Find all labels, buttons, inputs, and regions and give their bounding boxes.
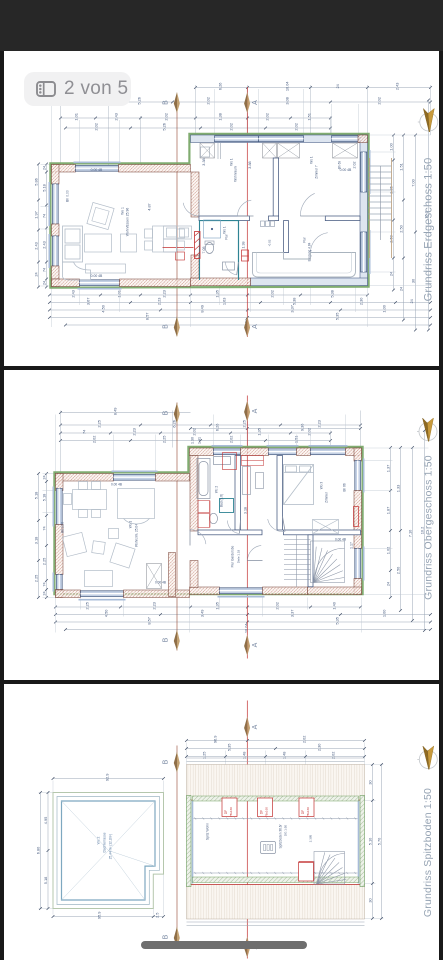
kitchen counter [163, 226, 191, 252]
dim chain EG right 2 [398, 134, 405, 322]
svg-text:96.9: 96.9 [212, 735, 217, 743]
wall OG left-block top a [55, 473, 113, 480]
svg-text:0.00 4B: 0.00 4B [339, 168, 351, 172]
dim chain OG bottom 2 [54, 609, 432, 617]
svg-text:2.02: 2.02 [228, 123, 233, 131]
svg-text:Wc 2: Wc 2 [96, 836, 100, 844]
wall hall-entrance divider [283, 221, 288, 253]
sofa L-shape [62, 226, 90, 280]
svg-text:6.80: 6.80 [35, 846, 40, 854]
svg-text:2.43: 2.43 [33, 242, 38, 250]
svg-text:1.51: 1.51 [293, 435, 298, 443]
svg-text:2.43: 2.43 [394, 83, 399, 91]
door bedroom right [300, 193, 325, 216]
dim chain SP roof bottom [51, 911, 164, 919]
svg-text:1.37: 1.37 [385, 464, 390, 472]
svg-text:1.63: 1.63 [221, 298, 226, 306]
OG shower teal [219, 498, 233, 512]
svg-text:5.26: 5.26 [161, 123, 166, 131]
svg-text:A: A [251, 724, 258, 729]
OG washbasin [213, 456, 230, 464]
roof window DF 4 [298, 861, 313, 880]
wall left-block bottom segment b [119, 279, 190, 286]
OG winder stair [283, 534, 343, 585]
svg-text:4.95: 4.95 [42, 816, 47, 824]
svg-text:DG 1:50: DG 1:50 [283, 824, 287, 835]
svg-text:Zimmer: Zimmer [324, 491, 328, 503]
wall left-block left lower segment [51, 266, 58, 279]
OG door hall [247, 545, 262, 560]
svg-text:Grundriss Erdgeschoss 1:50: Grundriss Erdgeschoss 1:50 [422, 158, 434, 302]
dim chain SP right 1 [367, 763, 374, 920]
svg-text:2.02: 2.02 [163, 113, 168, 121]
wall OG stair enclosure [307, 534, 312, 586]
svg-text:2.02: 2.02 [352, 162, 356, 169]
svg-text:7.08: 7.08 [201, 247, 205, 254]
terrace inner line [256, 252, 351, 272]
window OG right 2 [354, 546, 363, 580]
svg-text:1.01: 1.01 [73, 113, 78, 121]
svg-text:10.04: 10.04 [284, 81, 289, 92]
dim chain OG left outer [33, 472, 40, 599]
svg-text:B: B [162, 759, 169, 764]
roof window DF 1 [221, 798, 236, 817]
svg-text:B: B [162, 324, 169, 329]
dim chain SP roof top [51, 773, 164, 781]
dim connector lines top [60, 85, 430, 165]
exterior stair rails [369, 158, 391, 258]
svg-text:1.33: 1.33 [395, 484, 400, 492]
wall OG left-block bottom b [123, 589, 189, 597]
attic knee wall bottom green strip [192, 876, 358, 881]
north arrow SP [417, 746, 437, 769]
svg-text:Diele 1.18: Diele 1.18 [236, 549, 240, 563]
svg-text:8.57: 8.57 [144, 313, 149, 321]
svg-text:0.00 4B: 0.00 4B [154, 580, 165, 584]
svg-text:8.57: 8.57 [146, 617, 151, 625]
svg-text:2.395: 2.395 [308, 834, 312, 842]
OG dining table set [63, 481, 106, 517]
dim chain EG left inner [41, 163, 48, 289]
wall OG right-block top a [189, 448, 213, 455]
svg-text:2.50: 2.50 [398, 225, 403, 233]
wall right-block bottom ring [250, 278, 367, 285]
dim chain SP roof left 2 [42, 791, 49, 910]
roof ridge diagonals [61, 801, 154, 900]
wall OG interior vertical main [189, 455, 197, 530]
OG kitchen red boxes [197, 455, 262, 527]
svg-text:8.49: 8.49 [199, 305, 204, 313]
dim chain EG right 3 [410, 134, 417, 332]
wall OG right upper [353, 448, 360, 461]
svg-text:Wo 1: Wo 1 [128, 520, 132, 528]
svg-text:1.02: 1.02 [385, 546, 390, 554]
wall OG left-block top b [155, 473, 189, 480]
north arrow OG [416, 418, 436, 441]
OG door living [189, 529, 205, 545]
svg-text:1.38: 1.38 [241, 242, 245, 249]
svg-text:24: 24 [408, 298, 413, 303]
svg-text:2.02: 2.02 [293, 123, 298, 131]
OG armchair 2 [109, 542, 134, 567]
svg-text:3.37: 3.37 [289, 305, 294, 313]
svg-text:2.02: 2.02 [269, 290, 274, 298]
extension lines SP [38, 742, 383, 918]
svg-text:78x160: 78x160 [228, 806, 232, 816]
door bath [225, 262, 238, 275]
dim chain SP top 3 [185, 751, 366, 759]
wall OG right lower [353, 578, 360, 594]
svg-text:Wo 1: Wo 1 [229, 158, 233, 166]
svg-text:5.26: 5.26 [136, 97, 141, 105]
svg-text:1.00: 1.00 [381, 305, 386, 313]
svg-text:3.49: 3.49 [199, 609, 204, 617]
section marker B top OG [162, 402, 179, 423]
roof window DF 3 [298, 798, 313, 817]
svg-text:2.30: 2.30 [358, 298, 363, 306]
svg-text:30: 30 [367, 898, 372, 902]
svg-text:2.02: 2.02 [301, 735, 306, 743]
window right-block right 1 [360, 150, 369, 194]
attic gable wall left blue [191, 800, 193, 883]
svg-text:3.67: 3.67 [85, 298, 90, 306]
marker A bottom SP [244, 936, 259, 957]
window left-block left 1 [49, 182, 58, 226]
door entrance [310, 233, 330, 253]
svg-text:78x160: 78x160 [305, 806, 309, 816]
wall OG interior vertical main lower [189, 560, 197, 587]
svg-text:Wo 1: Wo 1 [222, 226, 226, 234]
svg-text:Grundriss Spitzboden 1:50: Grundriss Spitzboden 1:50 [422, 787, 433, 916]
svg-text:Wohnzim. 25.04: Wohnzim. 25.04 [134, 523, 138, 546]
attic stair red box [298, 862, 313, 880]
section line B vertical [175, 94, 177, 336]
svg-text:2.43: 2.43 [70, 290, 75, 298]
svg-text:2.50: 2.50 [395, 566, 400, 574]
svg-text:74: 74 [41, 267, 46, 272]
svg-text:2.02: 2.02 [228, 435, 233, 443]
svg-text:2.02: 2.02 [376, 97, 381, 105]
window left-block left 2 [49, 234, 58, 268]
dim chain OG top 1b [189, 423, 362, 431]
OG armchair 1 [62, 532, 86, 556]
wall interior horizontal hall b [268, 216, 278, 221]
wall left-block top-left segment [51, 165, 75, 172]
wall OG bottom right block a [189, 586, 219, 593]
svg-text:2.43: 2.43 [113, 113, 118, 121]
window right-block top 1 [214, 136, 258, 142]
svg-text:Grundriss Obergeschoss 1:50: Grundriss Obergeschoss 1:50 [423, 455, 434, 600]
svg-text:Wo 3: Wo 3 [319, 481, 323, 489]
svg-text:2.23: 2.23 [151, 602, 156, 610]
svg-text:4.50: 4.50 [103, 609, 108, 617]
svg-text:DF: DF [223, 809, 227, 813]
armchair rotated [86, 202, 113, 229]
kitchen red detail box [175, 252, 184, 260]
svg-text:0.00 4B: 0.00 4B [334, 537, 345, 541]
svg-text:5.70: 5.70 [376, 837, 381, 845]
svg-text:B6 0.00: B6 0.00 [60, 521, 64, 532]
wall interior horizontal hall a [198, 216, 248, 221]
attic roof lower edge lines [186, 921, 364, 925]
page indicator pill 2 von 5 [24, 72, 131, 106]
door hall to living [183, 200, 199, 216]
roof plan inner outline blue [61, 801, 154, 900]
section marker B bottom OG [162, 629, 179, 650]
dim connectors OG top [60, 410, 360, 475]
window OG bottom 1 [217, 587, 264, 596]
svg-text:2.02: 2.02 [205, 97, 210, 105]
toilet WC [204, 241, 213, 253]
side chair [120, 234, 136, 252]
svg-text:25.44 m² (12.2m²): 25.44 m² (12.2m²) [108, 833, 112, 859]
svg-text:2.23: 2.23 [316, 420, 321, 428]
svg-text:5.18: 5.18 [41, 493, 46, 501]
svg-text:5.38: 5.38 [291, 298, 296, 306]
svg-text:0.00 4B: 0.00 4B [90, 168, 102, 172]
svg-text:Flur Garderobe: Flur Garderobe [230, 545, 234, 567]
svg-text:74: 74 [41, 581, 46, 586]
svg-text:B: B [162, 934, 169, 939]
svg-text:Wo 1: Wo 1 [309, 156, 313, 164]
roof window DF 2 [257, 798, 272, 817]
svg-text:Bh 69: Bh 69 [337, 161, 341, 170]
dim chain EG bottom 2 [48, 298, 432, 306]
chimney box [260, 841, 275, 853]
OG small table 2 [108, 528, 118, 538]
section marker A top [244, 92, 259, 113]
OG door bedroom [267, 516, 284, 531]
svg-text:2.02: 2.02 [191, 428, 196, 436]
svg-text:3.18: 3.18 [243, 507, 247, 514]
svg-text:1.30: 1.30 [190, 437, 194, 444]
kitchen red detail line [162, 246, 193, 248]
window OG left-block bottom [78, 590, 125, 599]
dim chain OG bottom 1 [54, 602, 362, 610]
svg-text:2.25: 2.25 [41, 557, 46, 565]
dim chain OG right 1 [385, 446, 392, 599]
dim chain OG top 4 [59, 435, 332, 443]
section line A SP [246, 700, 248, 958]
svg-text:6.26: 6.26 [214, 423, 219, 431]
dim chain EG right 4 [423, 99, 430, 332]
video scrubber bar [141, 941, 307, 949]
svg-text:2.25: 2.25 [84, 602, 89, 610]
OG desk with arc [117, 488, 154, 523]
svg-text:2.02: 2.02 [93, 123, 98, 131]
svg-text:1.01: 1.01 [116, 290, 121, 298]
svg-text:92.9: 92.9 [104, 773, 109, 781]
wall OG left-block left upper [55, 473, 62, 490]
marker B bottom SP [162, 926, 179, 947]
attic rafter band top [186, 764, 364, 800]
pier right-block top-right X [332, 143, 357, 158]
window left-block bottom terrace door [77, 280, 121, 289]
wall OG left-block bottom a [55, 589, 80, 597]
dim chain EG bottom 5 [64, 318, 432, 329]
pier right-block top-mid X b [277, 143, 299, 158]
svg-text:74: 74 [41, 525, 46, 530]
svg-text:2.25: 2.25 [33, 574, 38, 582]
window OG right-block top 1 [211, 445, 242, 454]
section line B SP [175, 745, 177, 933]
window OG left-block left 2 [53, 572, 62, 591]
svg-text:2.50: 2.50 [388, 235, 393, 243]
window OG right 1 [354, 458, 363, 492]
dim chain EG bottom 1 [48, 290, 369, 298]
svg-text:DF: DF [300, 809, 304, 813]
attic knee wall top green strip [192, 796, 358, 801]
svg-text:30: 30 [410, 279, 415, 283]
svg-text:4.50: 4.50 [100, 305, 105, 313]
dim chain EG bottom 3 [48, 305, 432, 313]
dim chain EG top outer [194, 81, 432, 92]
wall left-block left upper segment [51, 165, 58, 184]
section line A vertical OG [246, 395, 248, 658]
wall OG interior horizontal [197, 530, 261, 535]
svg-text:A: A [251, 642, 258, 647]
OG bath counter [242, 466, 263, 494]
extension lines EG [40, 89, 430, 327]
wall OG bottom right block b [262, 586, 307, 593]
svg-text:2.02: 2.02 [264, 113, 269, 121]
dim chain SP top 1 [185, 735, 366, 743]
svg-text:1.41: 1.41 [197, 437, 201, 444]
svg-text:2.5: 2.5 [154, 912, 159, 917]
attic rafter band bottom red edge [186, 883, 364, 885]
dim chain OG bottom 4 [64, 622, 432, 633]
svg-text:2.25: 2.25 [241, 420, 246, 428]
bathroom inner wall teal [237, 221, 239, 280]
attic rafter band top red edge [186, 799, 364, 801]
status bar top black [0, 0, 443, 51]
wall interior vertical lower [190, 255, 198, 278]
svg-text:5.18: 5.18 [33, 491, 38, 499]
sideboard bottom [85, 264, 125, 273]
attic gable wall right blue [357, 800, 359, 883]
svg-text:Dachterrasse: Dachterrasse [102, 832, 106, 852]
window OG left-block top [111, 471, 157, 480]
svg-text:1.38: 1.38 [217, 113, 222, 121]
svg-text:0.00 4B: 0.00 4B [110, 482, 121, 486]
svg-text:2.30: 2.30 [316, 743, 321, 751]
svg-text:1.51: 1.51 [306, 113, 311, 121]
roof plan mid outline [56, 796, 158, 904]
svg-text:24: 24 [33, 272, 38, 277]
dim chain SP top 2 [185, 743, 366, 751]
svg-text:24: 24 [398, 286, 403, 291]
door top room 1 [237, 200, 253, 216]
window right-block top 3 [331, 136, 358, 142]
bathroom wall outline teal [199, 221, 238, 280]
exterior green band OG [54, 446, 362, 593]
svg-text:5.35: 5.35 [334, 617, 339, 625]
section line B vertical OG [175, 402, 177, 650]
wall OG left-block left lower [55, 589, 62, 597]
svg-text:1.35: 1.35 [256, 428, 261, 436]
svg-text:6.26: 6.26 [171, 420, 176, 428]
wall OG interior horizontal b [283, 530, 360, 535]
dim chain EG left outer [33, 163, 40, 289]
svg-text:2.23: 2.23 [156, 298, 161, 306]
svg-text:5.18: 5.18 [42, 876, 47, 884]
svg-text:24: 24 [41, 590, 46, 595]
window OG right-block top 2 [266, 445, 298, 454]
dim chain OG right 4 [419, 429, 426, 632]
svg-text:7.00: 7.00 [410, 179, 415, 187]
svg-text:Spitzboden 36.6/: Spitzboden 36.6/ [278, 824, 282, 848]
wall OG left-block left mid [55, 524, 62, 574]
svg-text:8.49: 8.49 [112, 407, 117, 415]
svg-text:5.35: 5.35 [226, 743, 231, 751]
svg-text:1.00: 1.00 [381, 609, 386, 617]
wall OG bottom right block c [307, 586, 361, 593]
svg-text:DF: DF [259, 809, 263, 813]
wall OG chimney vertical [168, 552, 175, 596]
svg-text:3.08: 3.08 [284, 97, 289, 105]
svg-text:Bad (9.8): Bad (9.8) [219, 493, 223, 506]
svg-text:-0.02: -0.02 [267, 239, 271, 246]
coffee table [84, 234, 111, 252]
dim chain OG top 1 [59, 407, 190, 415]
north arrow EG [417, 109, 437, 132]
svg-text:0.00 4B: 0.00 4B [90, 274, 102, 278]
wall interior vertical left/right [190, 172, 198, 217]
dim chain OG left inner [41, 472, 48, 599]
svg-text:A: A [251, 100, 258, 105]
rafter spacing tick chain bottom [193, 871, 357, 873]
dim chain EG right 1 [388, 134, 395, 292]
wall right-block top ring [190, 135, 367, 142]
svg-text:3.88: 3.88 [247, 161, 251, 168]
OG door bath [227, 520, 240, 533]
OG kitchen red outline [353, 506, 358, 526]
svg-text:5.10: 5.10 [367, 837, 372, 845]
svg-text:9.36: 9.36 [299, 423, 304, 431]
plumbing wall red hatch [194, 231, 199, 258]
wall right-block right ring [359, 135, 366, 285]
svg-text:1.40: 1.40 [331, 602, 336, 610]
svg-text:Bh 0.00: Bh 0.00 [65, 190, 69, 202]
svg-text:78x160: 78x160 [264, 806, 268, 816]
extension lines OG [42, 414, 428, 632]
wall left-block top-mid segment [118, 165, 190, 172]
wall interior top rooms divider [273, 158, 278, 216]
section marker A bottom [244, 316, 259, 337]
section marker A bottom OG [244, 634, 259, 655]
window OG right-block top 3 [308, 445, 347, 454]
window right-block right 2 [360, 230, 369, 274]
attic gable wall left green [186, 795, 190, 886]
svg-text:1.35: 1.35 [214, 602, 219, 610]
svg-text:1.00: 1.00 [388, 143, 393, 151]
svg-text:24: 24 [388, 271, 393, 276]
svg-text:A: A [251, 324, 258, 329]
OG kitchen counters [0, 0, 1, 1]
OG bed [283, 464, 313, 504]
OG bathtub [196, 458, 209, 498]
svg-text:5.35: 5.35 [334, 313, 339, 321]
stair arrow line [379, 166, 381, 240]
svg-text:2.02: 2.02 [306, 428, 311, 436]
svg-text:3.37: 3.37 [289, 609, 294, 617]
attic gable wall right green [359, 795, 363, 886]
window OG left-block left 1 [53, 486, 62, 526]
svg-text:95.9: 95.9 [96, 911, 101, 919]
svg-text:Flur: Flur [302, 236, 306, 242]
marker B top SP [162, 751, 179, 772]
dim chain EG top 2 [59, 97, 432, 105]
